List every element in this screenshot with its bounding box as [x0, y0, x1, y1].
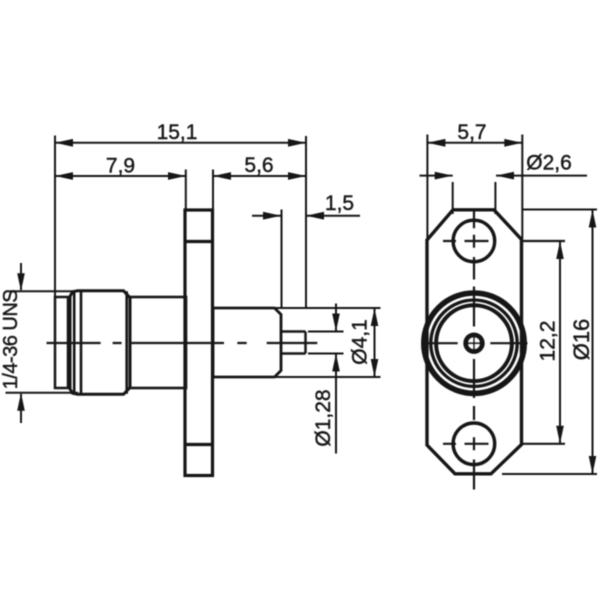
dia 1,28 arrow down	[332, 314, 340, 332]
arrow 7,9 left	[55, 172, 73, 180]
dia 16 extension top	[522, 209, 598, 211]
coupling nut inner vertical 2	[80, 291, 83, 394]
dimension 1,5 left segment	[252, 215, 281, 217]
connector ring 2	[431, 300, 517, 386]
arrow 15,1 right	[288, 139, 306, 147]
thread front ring (1/4-36 UNS barrel)	[55, 297, 68, 388]
centerline axis left view	[47, 342, 318, 344]
center cross vertical	[473, 336, 475, 350]
dia 1,28 extension top	[308, 331, 344, 333]
dia 2,6 right segment	[496, 175, 587, 177]
dia 2,6 arrow pointing right	[435, 172, 453, 180]
arrow 7,9 right	[168, 172, 186, 180]
dia 4,1 arrow down	[371, 359, 379, 377]
dimension 7,9 line	[55, 175, 186, 177]
dia 4,1 dim line	[374, 308, 376, 377]
coupling nut outline	[70, 291, 130, 395]
dia 4,1 extension top	[272, 307, 381, 309]
center cross horizontal	[467, 342, 481, 344]
thread dim arrow top	[17, 273, 25, 291]
extension line pin tip	[305, 136, 307, 308]
thread dim arrow line top	[20, 263, 22, 290]
svg-text:Ø1,28: Ø1,28	[312, 389, 335, 446]
dia 1,28 dim line upper	[335, 304, 337, 332]
svg-text:5,7: 5,7	[457, 121, 486, 144]
arrow 1,5 pointing left	[306, 212, 324, 220]
thread dim arrow bottom	[17, 393, 25, 411]
svg-text:1/4-36 UNS: 1/4-36 UNS	[0, 290, 22, 390]
dia 2,6 arrow pointing left	[496, 172, 514, 180]
arrow 12,2 up	[556, 241, 564, 259]
extension line flange right	[212, 170, 214, 209]
svg-text:15,1: 15,1	[157, 121, 198, 144]
dimension 5,7 line	[427, 142, 522, 144]
top hole horizontal centerline	[443, 240, 565, 242]
svg-text:1,5: 1,5	[325, 192, 354, 215]
svg-text:Ø16: Ø16	[569, 319, 594, 361]
center pin top edge	[281, 330, 306, 333]
horizontal centerline right view	[424, 342, 528, 344]
svg-text:12,2: 12,2	[537, 321, 560, 362]
dia 1,28 dim line lower	[335, 354, 337, 454]
svg-text:7,9: 7,9	[106, 155, 135, 178]
flange hole line top	[185, 240, 213, 243]
connector outer ring	[424, 293, 524, 393]
thread dim arrow line bottom	[20, 394, 22, 423]
dimension 15,1 line	[55, 142, 306, 144]
dia 16 extension bottom	[502, 473, 597, 475]
arrow 5,7 right	[504, 139, 522, 147]
dimension 12,2 line	[559, 241, 561, 444]
dia 2,6 left segment	[420, 175, 453, 177]
body cylinder	[130, 297, 186, 388]
center socket hole	[468, 338, 479, 349]
svg-text:Ø4,1: Ø4,1	[349, 319, 372, 365]
dia 2,6 extension right	[494, 182, 496, 214]
dia 4,1 arrow up	[371, 308, 379, 326]
center pin tip face	[304, 332, 307, 354]
dia 16 arrow up	[589, 210, 597, 228]
flange outline front view	[427, 210, 522, 474]
extension line flange left	[185, 170, 187, 209]
svg-text:5,6: 5,6	[244, 154, 273, 177]
bottom hole horizontal centerline	[443, 443, 565, 445]
dimension 1,5 right segment	[306, 215, 360, 217]
arrow 15,1 left	[55, 139, 73, 147]
center pin bottom edge	[281, 352, 306, 355]
dia 2,6 extension left	[452, 182, 454, 214]
flange plate side view	[185, 210, 213, 476]
rear body cylinder	[213, 308, 281, 377]
thread dim extension top	[6, 290, 79, 292]
center contact disc	[463, 333, 484, 354]
mounting hole bottom	[453, 423, 495, 465]
extension line left face	[54, 136, 56, 297]
arrow 1,5 left pointing right	[263, 212, 281, 220]
arrow 5,6 left	[213, 172, 231, 180]
mounting hole top	[453, 220, 495, 262]
flange hole line bottom	[185, 443, 213, 446]
extension 5,7 left	[426, 135, 428, 241]
vertical centerline right view	[473, 212, 475, 490]
dia 1,28 extension bottom	[308, 353, 344, 355]
thread dim extension bottom	[6, 392, 79, 394]
coupling nut chamfer boundary vertical	[125, 291, 128, 393]
extension line rear body right	[281, 210, 283, 308]
arrow 5,6 right	[288, 172, 306, 180]
dia 16 dim line	[592, 210, 594, 475]
coupling nut inner vertical 1	[73, 292, 76, 393]
svg-text:Ø2,6: Ø2,6	[526, 152, 572, 175]
extension 5,7 right	[521, 135, 523, 240]
connector ring 3	[436, 305, 512, 381]
arrow 12,2 down	[556, 426, 564, 444]
dia 1,28 arrow up	[332, 354, 340, 372]
dia 16 arrow down	[589, 456, 597, 474]
dimension 5,6 line	[213, 175, 306, 177]
arrow 5,7 left	[427, 139, 445, 147]
dia 4,1 extension bottom	[272, 376, 381, 378]
